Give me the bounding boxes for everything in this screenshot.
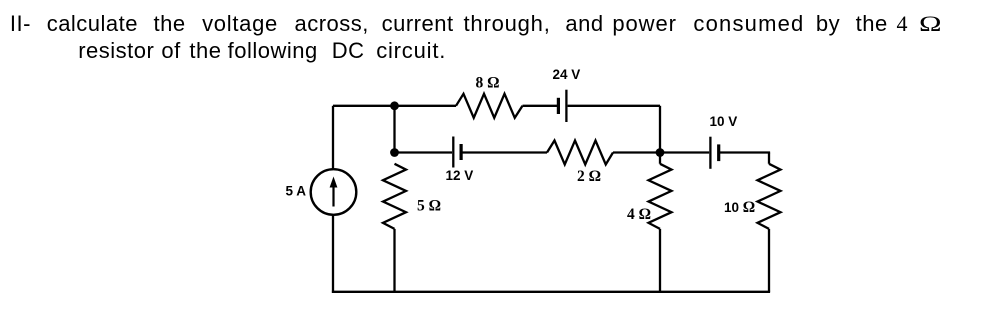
resistor R 10ohm (right vertical) — [758, 164, 781, 229]
resistor R 4ohm (vertical under node C) — [649, 164, 672, 229]
wire: top rail right segment — [568, 105, 660, 107]
wire: left vertical from top rail to current source — [332, 106, 334, 170]
wire: middle rail from 12V battery to 2ohm resistor — [462, 151, 547, 153]
svg-text:8 Ω: 8 Ω — [476, 75, 500, 92]
wire: left vertical from current source to bottom rail — [332, 215, 334, 293]
wire: from 10V battery to right vertical — [720, 151, 770, 153]
battery V 24V: long thin plate — [565, 90, 567, 122]
resistor R 5ohm (left vertical) — [383, 164, 406, 229]
svg-text:2 Ω: 2 Ω — [577, 168, 601, 185]
wire: from 5ohm resistor to bottom rail — [393, 229, 395, 292]
svg-text:10 V: 10 V — [710, 114, 738, 129]
wire: top rail left segment — [333, 105, 456, 107]
svg-text:10 Ω: 10 Ω — [724, 199, 755, 216]
wire: from 4ohm resistor to bottom rail — [659, 229, 661, 292]
node B (junction, middle rail left) — [390, 148, 399, 157]
node A (junction on top rail) — [390, 101, 399, 110]
resistor R 2ohm (middle branch, horizontal) — [547, 141, 613, 165]
wire: from node C to 10V battery — [660, 151, 709, 153]
wire: vertical between node A and node B — [393, 106, 395, 153]
wire: right vertical from top rail down to node C — [659, 106, 661, 153]
title line 1 — [10, 13, 31, 35]
battery V 10V (right branch): long thin plate — [709, 137, 711, 169]
wire: bottom rail — [332, 291, 770, 293]
wire: from 10ohm resistor to bottom rail — [768, 229, 770, 292]
wire: stub from node C down to 4ohm resistor — [659, 153, 661, 164]
current source I1 5A (circle) — [311, 169, 357, 215]
wire: middle rail from node B to 12V battery — [395, 151, 453, 153]
svg-text:12 V: 12 V — [446, 168, 474, 183]
battery V 10V: short thick plate — [717, 144, 720, 161]
battery V 12V (middle branch): long thin plate — [452, 137, 454, 168]
battery V 12V: short thick plate — [460, 144, 463, 160]
svg-text:4 Ω: 4 Ω — [627, 206, 651, 223]
svg-text:5 Ω: 5 Ω — [417, 198, 441, 215]
svg-text:24 V: 24 V — [553, 67, 581, 82]
title line 2 — [78, 40, 154, 62]
wire: top rail between 8ohm resistor and 24V battery — [523, 105, 558, 107]
node C (junction, middle rail right) — [656, 148, 665, 157]
svg-text:5 A: 5 A — [286, 183, 307, 198]
current source arrow (pointing up) — [332, 184, 334, 207]
battery V 24V (top branch): short thick plate — [557, 98, 560, 114]
resistor R 8ohm (top branch, horizontal) — [456, 94, 523, 118]
wire: middle rail from 2ohm resistor to node C — [613, 151, 660, 153]
wire: right vertical from middle rail to 10ohm resistor — [768, 153, 770, 164]
